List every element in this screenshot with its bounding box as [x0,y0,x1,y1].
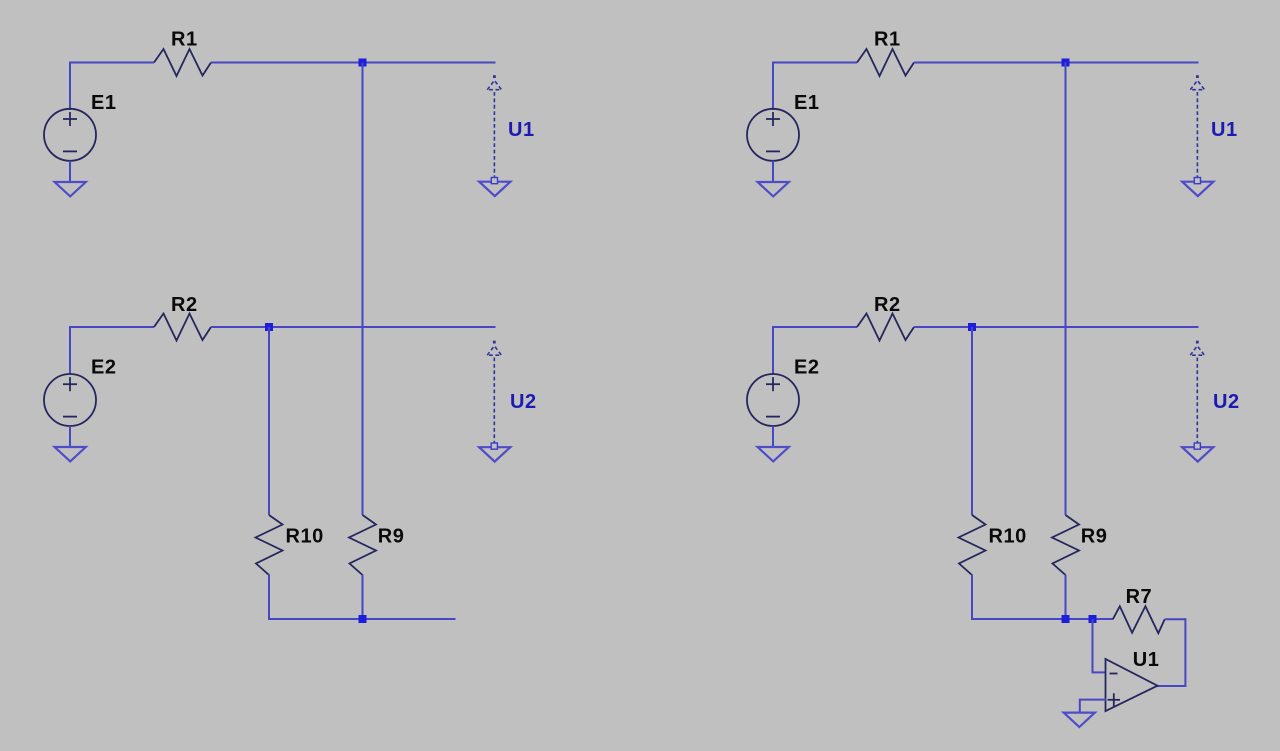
op-amp U1 [1106,659,1158,711]
wire R2 to U2 node [914,326,1199,328]
wire E2 to R1 [773,62,857,64]
meter U2 ground [1182,447,1213,461]
ground under E2 [758,447,789,461]
resistor R9 [1052,515,1079,575]
voltage meter arrow U1 [1190,75,1204,177]
svg-text:U1: U1 [1133,649,1160,671]
voltage source E2 [44,374,96,426]
wire E1 to ground [772,161,774,182]
wire R7 to feedback corner [1165,618,1186,620]
wire R9 to bottom rail [1065,575,1067,620]
feedback wire vertical [1184,618,1186,686]
wire non-inverting input to ground [1080,699,1107,701]
wire E1 to R1 [70,62,154,64]
resistor R7 [1113,606,1165,633]
wire R10 to bottom rail [268,575,270,620]
svg-text:R2: R2 [874,294,901,316]
bottom rail left circuit [268,618,456,620]
wire down to E1 [69,62,71,111]
voltage source E1 [747,109,799,161]
wire node to inverting input [1092,619,1094,672]
svg-text:R10: R10 [286,525,324,547]
resistor R1 [857,49,914,76]
wire E2 to ground [69,426,71,447]
svg-text:U1: U1 [508,119,535,141]
wire R1 to U1 node [211,62,496,64]
svg-text:E2: E2 [91,357,116,379]
vertical wire node1 to R9 [1065,63,1067,516]
svg-text:E1: E1 [794,92,819,114]
vertical wire node2 to R10 [268,327,270,515]
wire E1 to ground [69,161,71,182]
voltage meter arrow U1 [487,75,501,177]
resistor R10 [959,515,986,575]
wire down to E1 [772,62,774,111]
svg-text:R1: R1 [874,28,901,50]
wire E2 to ground [772,426,774,447]
ground under E1 [55,182,86,196]
svg-text:U2: U2 [1213,391,1240,413]
junction node mid [265,323,273,331]
bottom rail right circuit [971,618,1113,620]
wire into inverting input [1092,671,1106,673]
svg-text:R10: R10 [989,525,1027,547]
wire down to op-amp ground [1079,699,1081,713]
junction bottom rail [359,615,367,623]
meter U1 ground [479,182,510,196]
vertical wire node1 to R9 [362,63,364,516]
voltage source E1 [44,109,96,161]
vertical wire node2 to R10 [971,327,973,515]
ground at op-amp non-inverting input [1064,713,1095,727]
svg-text:R9: R9 [1081,525,1108,547]
ground under E2 [55,447,86,461]
meter U2 ground [479,447,510,461]
svg-text:U2: U2 [510,391,537,413]
svg-text:E1: E1 [91,92,116,114]
svg-text:R7: R7 [1126,586,1153,608]
meter U2 terminal square [1194,443,1200,449]
wire down to E2 [69,326,71,375]
svg-text:R2: R2 [171,294,198,316]
svg-text:R1: R1 [171,28,198,50]
voltage source E2 [747,374,799,426]
resistor R1 [154,49,211,76]
wire feedback to op-amp output [1157,685,1186,687]
junction node top [359,59,367,67]
meter U1 terminal square [1194,178,1200,184]
voltage meter arrow U2 [487,341,501,443]
resistor R2 [857,314,914,341]
wire R9 to bottom rail [362,575,364,620]
junction bottom rail right [1062,615,1070,623]
svg-text:R9: R9 [378,525,405,547]
wire E2 to R2 [70,326,154,328]
resistor R10 [256,515,283,575]
junction node top [1062,59,1070,67]
junction feedback node [1089,615,1097,623]
svg-text:E2: E2 [794,357,819,379]
svg-text:U1: U1 [1211,119,1238,141]
wire R1 to U1 node [914,62,1199,64]
wire R2 to U2 node [211,326,496,328]
wire E2 to R2 [773,326,857,328]
resistor R9 [349,515,376,575]
wire R10 to bottom rail [971,575,973,620]
meter U1 ground [1182,182,1213,196]
voltage meter arrow U2 [1190,341,1204,443]
meter U2 terminal square [491,443,497,449]
wire down to E2 [772,326,774,375]
meter U1 terminal square [491,178,497,184]
resistor R2 [154,314,211,341]
junction node mid [968,323,976,331]
ground under E1 [758,182,789,196]
